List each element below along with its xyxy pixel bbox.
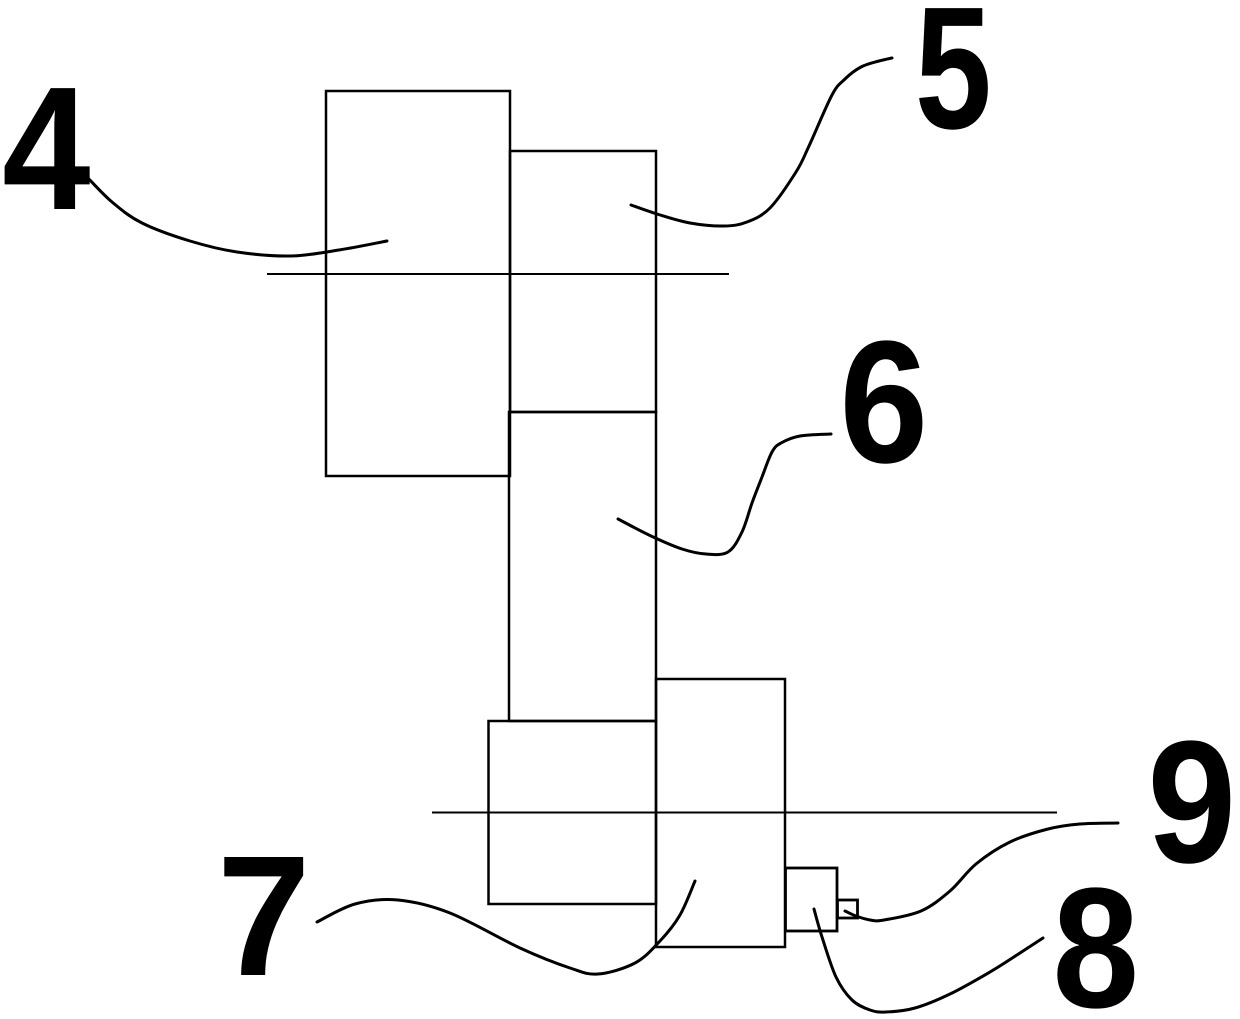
- block 9 body (tiny square): [838, 900, 858, 918]
- svg-text:5: 5: [915, 0, 992, 166]
- svg-text:9: 9: [1147, 706, 1236, 900]
- leader line 5: [631, 58, 892, 226]
- block 6 body (middle column rectangle): [509, 412, 656, 721]
- svg-text:7: 7: [217, 819, 310, 1011]
- svg-text:6: 6: [839, 306, 928, 500]
- svg-text:4: 4: [2, 51, 90, 247]
- right lower block: [656, 679, 785, 947]
- leader line 8: [814, 909, 1043, 1012]
- block 7 body (bottom-middle rectangle): [489, 721, 657, 904]
- leader line 7: [317, 881, 695, 974]
- lower centerline: [432, 812, 1057, 814]
- block 5 body (upper-right rectangle): [510, 151, 656, 412]
- leader line 6: [618, 434, 831, 555]
- leader line 4: [87, 177, 387, 256]
- leader line 9: [845, 823, 1118, 921]
- svg-text:8: 8: [1052, 852, 1139, 1019]
- block 4 body (large upper-left rectangle): [326, 91, 510, 476]
- upper centerline: [267, 273, 729, 275]
- block 8 body (small rectangle): [786, 868, 838, 931]
